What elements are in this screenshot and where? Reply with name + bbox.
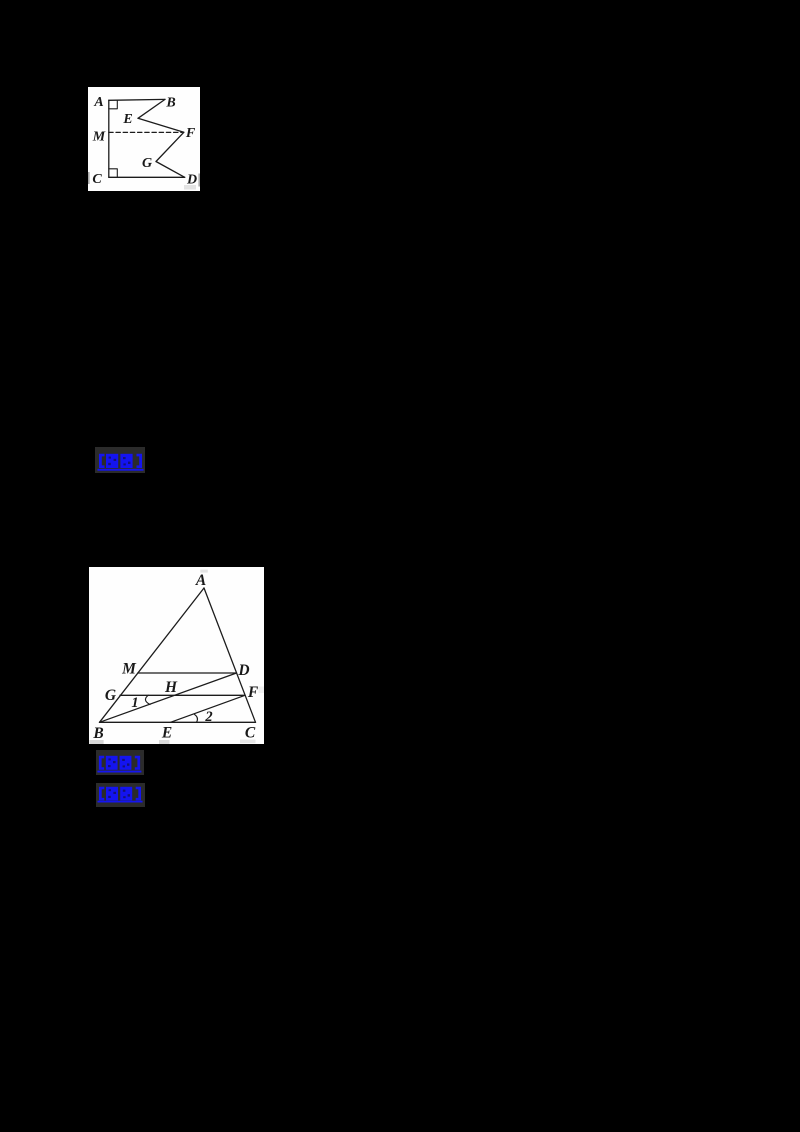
wire M to F dashed [109,131,182,133]
wire BC [100,721,256,723]
wire AC vertical segment [108,100,110,177]
svg-text:G: G [105,687,117,704]
svg-text:A: A [93,95,103,110]
wire AB [100,588,205,722]
scan smudge below B [89,740,103,744]
svg-text:2: 2 [204,709,212,725]
right angle mark at C [109,169,118,178]
link chip 3 [96,783,145,807]
wire BD [100,673,237,722]
wire MD [138,672,237,674]
angle 1 arc at H [145,695,150,704]
wire EF [171,695,246,722]
angle 2 arc at E [194,714,197,722]
scan smudge above A [200,570,208,573]
svg-text:E: E [122,112,132,127]
svg-text:C: C [245,725,256,742]
figure image 1: zigzag rectangle ABCD [88,87,200,191]
wire B to E [138,99,165,118]
svg-text:H: H [164,679,178,696]
scan smudge below C [240,740,256,744]
wire F to G [156,132,184,161]
wire C to D bottom segment [109,176,185,178]
figure image 2: triangle ABC with cevians [89,567,264,744]
wire A to B top segment [109,98,165,101]
scan smudge below E [159,740,170,744]
wire AC [204,588,256,722]
scan smudge right of F [259,687,265,694]
link chip 1 [95,447,145,473]
svg-text:M: M [121,661,137,678]
svg-text:D: D [237,662,249,679]
svg-text:C: C [92,172,102,187]
svg-text:B: B [92,725,103,742]
svg-text:1: 1 [131,695,138,711]
svg-text:G: G [142,156,152,171]
svg-text:F: F [247,684,259,701]
scan smudge bottom right [184,185,196,190]
svg-text:E: E [161,725,172,742]
svg-text:B: B [165,96,175,111]
wire G to D [156,162,185,178]
scan smudge right edge [198,174,200,187]
wire E to F [138,118,184,132]
link chip 2 [96,750,144,775]
scan smudge left edge [88,172,90,184]
right angle mark at A [109,100,118,109]
svg-text:M: M [92,130,106,145]
svg-text:F: F [185,126,196,141]
svg-text:A: A [195,572,206,589]
wire GF [120,694,245,696]
